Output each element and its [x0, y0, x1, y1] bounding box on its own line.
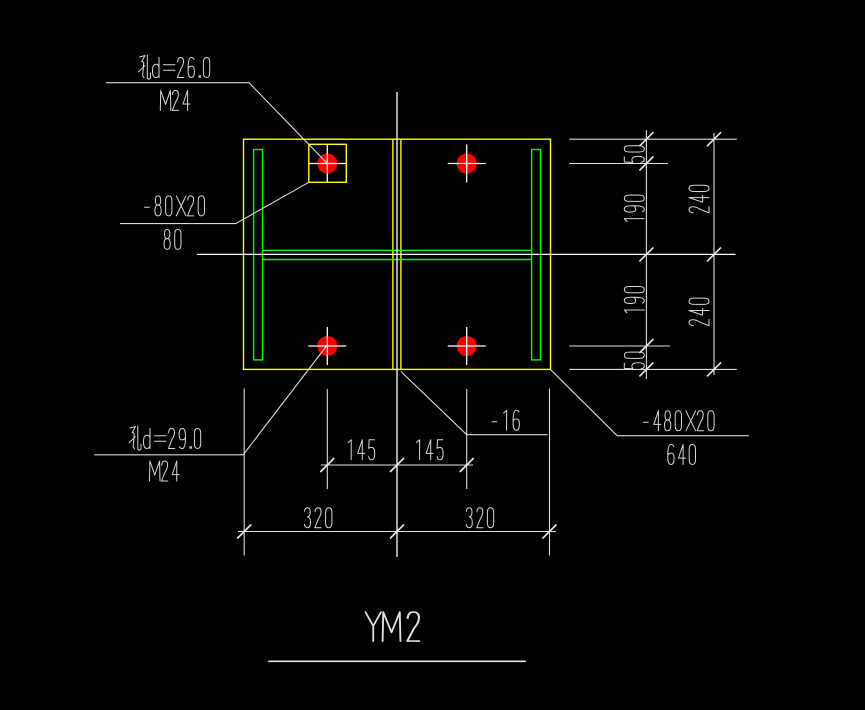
text 240 upper [689, 185, 709, 213]
text M24 bottom [150, 461, 180, 481]
bolt hole bottom-right [448, 327, 486, 365]
extension lines right [569, 139, 737, 369]
I-beam right flange [532, 150, 541, 360]
dimension line 50-190-190-50 chain [645, 130, 647, 379]
title YM2 [366, 612, 420, 641]
text -480X20 [643, 411, 714, 431]
stiffener plate -16 edge lines [393, 139, 401, 369]
leader -80X20 [120, 182, 309, 223]
tick marks bottom chains [237, 458, 556, 539]
text -16 [492, 410, 519, 430]
text M24 top [160, 90, 190, 110]
leader hole d26 [106, 83, 327, 164]
dimension line 320-320 [238, 531, 556, 533]
CJK hole char top label [139, 55, 151, 79]
bolt hole bottom-left [308, 327, 346, 365]
I-beam left flange [254, 150, 263, 360]
tick marks right chains [639, 132, 721, 376]
text 190 lower [624, 287, 644, 314]
text 240 lower [689, 298, 709, 326]
title underline [268, 660, 526, 662]
bolt hole top-right [448, 145, 486, 183]
dimension line 145-145 [321, 464, 473, 466]
I-beam web double line [263, 250, 532, 259]
text 640 [668, 445, 696, 465]
leader -480X20 [551, 370, 749, 436]
bolt hole top-left [308, 145, 346, 183]
leader -16 [401, 372, 548, 435]
extension lines bottom [244, 389, 549, 556]
text 320 right [466, 508, 494, 528]
CJK hole char bottom label [129, 426, 141, 450]
horizontal centerline [197, 253, 736, 255]
text 320 left [304, 508, 332, 528]
vertical centerline [396, 92, 398, 557]
text d=26.0 [153, 58, 210, 78]
text 190 upper [624, 195, 644, 222]
leader hole d29 [94, 346, 327, 455]
base plate outline (640x480 plate) [244, 139, 551, 369]
washer plate -80X20 box [309, 144, 347, 182]
text d=29.0 [144, 429, 201, 449]
text 50 upper [624, 146, 644, 163]
text 80 [164, 229, 181, 249]
text 50 lower [624, 352, 644, 369]
text 145 right [417, 440, 444, 460]
text 145 left [348, 440, 375, 460]
dimension line 240-240 chain [713, 133, 715, 375]
text -80X20 [145, 196, 205, 216]
